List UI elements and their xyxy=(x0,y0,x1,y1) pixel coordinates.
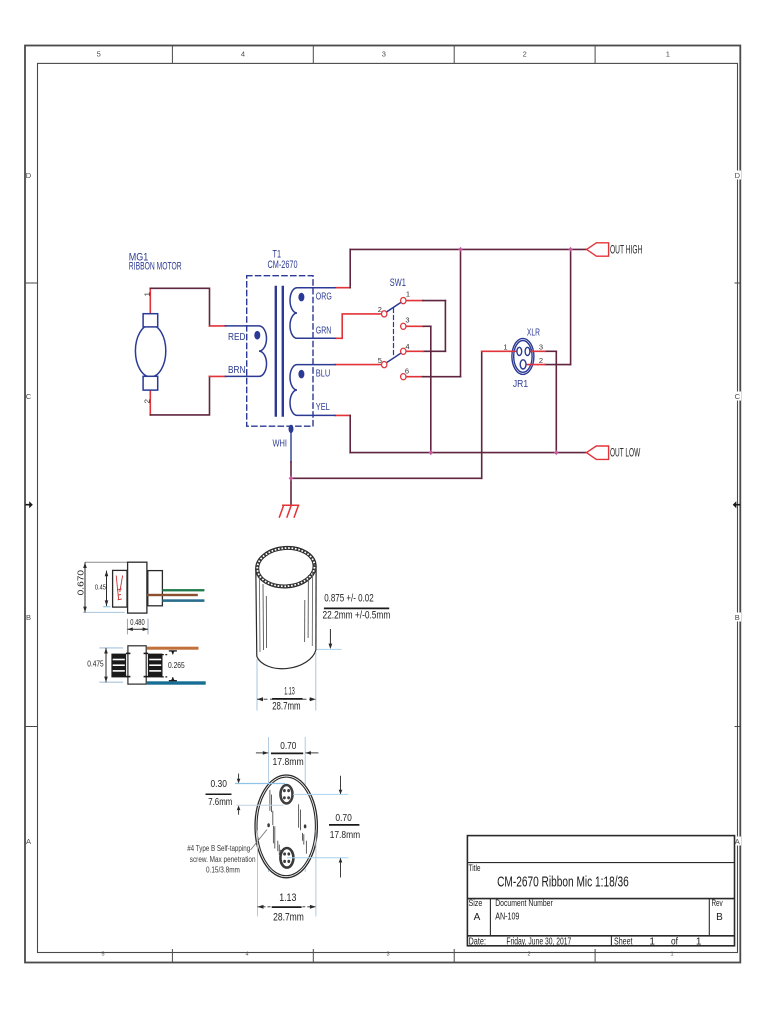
dim 0.30 leaders xyxy=(235,783,285,785)
wire T1 BRN stub xyxy=(210,375,226,377)
wire T1 RED stub xyxy=(210,325,226,327)
svg-text:ORG: ORG xyxy=(316,290,332,302)
svg-text:1.13: 1.13 xyxy=(279,892,296,904)
dim 0.70 top line arrows xyxy=(256,752,268,754)
lead wire green xyxy=(162,589,204,591)
lead wire brown xyxy=(147,594,198,596)
svg-text:1: 1 xyxy=(670,952,673,958)
svg-text:D: D xyxy=(26,171,32,180)
SW1 throw 2-1 xyxy=(387,303,401,312)
note text xyxy=(187,844,255,875)
bobbin left block xyxy=(113,570,127,607)
SW1 throw 5-4 xyxy=(387,353,401,362)
svg-text:Rev: Rev xyxy=(712,898,723,909)
junction at OUT HIGH / XLR pin2 xyxy=(568,247,573,252)
svg-text:4: 4 xyxy=(245,952,248,958)
dim 0.480 extension lines xyxy=(126,619,128,635)
cylinder rim knurl band xyxy=(256,546,316,588)
svg-text:RED: RED xyxy=(228,331,246,343)
svg-text:4: 4 xyxy=(405,342,409,351)
wire XLR pin1 dropper xyxy=(481,351,483,478)
wire XLR pin2 stub red xyxy=(526,364,545,366)
svg-text:0.475: 0.475 xyxy=(87,659,104,669)
wire XLR pin2 to riser xyxy=(545,364,571,366)
screw pilot dot left xyxy=(267,823,270,827)
cylinder top rim outer xyxy=(254,545,317,590)
wire tie 1-4 vertical xyxy=(444,301,446,352)
dim 0.265 arrows xyxy=(169,650,177,652)
core center block xyxy=(128,562,147,613)
right band ticks xyxy=(735,282,741,284)
svg-text:BLU: BLU xyxy=(316,368,331,380)
dim 0.30 arrows xyxy=(238,774,240,782)
svg-text:0.45: 0.45 xyxy=(95,583,106,592)
svg-text:0.480: 0.480 xyxy=(130,617,145,627)
wire WHI blue segment xyxy=(290,429,292,462)
svg-text:5: 5 xyxy=(97,49,101,58)
junction at WHI / XLR pin1 xyxy=(289,476,294,481)
connector XLR JR1 xyxy=(512,338,534,374)
wire SW1-3 stub red xyxy=(406,325,424,327)
reflection hatch lines xyxy=(270,790,307,864)
cylinder right side xyxy=(315,566,317,650)
svg-text:BRN: BRN xyxy=(228,364,246,376)
wire XLR pin1 stub red xyxy=(482,350,517,352)
wire SW1-6 riser to OUT HIGH xyxy=(460,249,462,376)
svg-text:0.670: 0.670 xyxy=(76,570,86,596)
lead wire teal bottom xyxy=(147,681,206,684)
T1 labels xyxy=(268,249,298,271)
cylinder top rim inner xyxy=(258,548,315,587)
svg-text:2: 2 xyxy=(527,952,530,958)
T1 primary dot xyxy=(254,331,260,340)
svg-text:0.875 +/- 0.02: 0.875 +/- 0.02 xyxy=(324,593,374,605)
wire BLU to SW1-5 xyxy=(335,364,381,366)
svg-text:#4 Type B Self-tapping: #4 Type B Self-tapping xyxy=(187,844,250,853)
svg-text:screw. Max penetration: screw. Max penetration xyxy=(190,855,256,864)
screw head top xyxy=(281,785,293,803)
svg-text:1: 1 xyxy=(649,936,655,947)
svg-text:2: 2 xyxy=(523,49,527,58)
motor MG1 xyxy=(135,314,165,390)
svg-text:2: 2 xyxy=(378,305,382,314)
cylinder reflection lines xyxy=(263,575,308,650)
svg-text:2: 2 xyxy=(539,356,543,365)
MG1 labels xyxy=(129,251,182,272)
top band ticks xyxy=(171,46,173,64)
wire SW1-1 stub red xyxy=(406,300,423,302)
svg-text:1: 1 xyxy=(666,49,670,58)
svg-text:AN-109: AN-109 xyxy=(495,912,520,923)
svg-text:JR1: JR1 xyxy=(513,378,528,390)
lead wire teal xyxy=(162,599,204,602)
svg-text:1: 1 xyxy=(406,290,410,299)
wire ORG riser xyxy=(349,249,351,287)
wire OUT LOW bus xyxy=(350,452,586,454)
svg-text:B: B xyxy=(716,912,723,923)
MG1 pin numbers xyxy=(143,292,152,404)
junction at OUT HIGH / SW1-6 xyxy=(458,247,463,252)
svg-text:of: of xyxy=(671,936,678,947)
wire XLR pin3 stub red xyxy=(530,350,545,352)
svg-text:Document Number: Document Number xyxy=(495,898,553,909)
svg-text:D: D xyxy=(735,171,741,180)
svg-text:A: A xyxy=(26,837,31,846)
bobbin right block xyxy=(148,571,163,606)
cylinder left side xyxy=(255,569,258,657)
T1 terminal labels xyxy=(228,290,332,449)
wire OUT HIGH bus xyxy=(350,248,586,250)
svg-text:28.7mm: 28.7mm xyxy=(273,911,304,923)
svg-text:1: 1 xyxy=(696,936,702,947)
dim 0.475 extension lines xyxy=(99,647,123,649)
wire MG1 pin2 stub xyxy=(149,390,151,415)
dim 0.875 leader arrow xyxy=(329,629,331,648)
wire SW1-1 to tie xyxy=(423,300,446,302)
cylinder bottom arc xyxy=(257,650,316,669)
dim 1.13 line xyxy=(257,698,316,700)
svg-text:Title: Title xyxy=(469,863,481,874)
dim 0.70 right arrows xyxy=(340,776,342,794)
wire MG1 pin1 to T1 RED xyxy=(150,288,209,326)
dim 0.475 line xyxy=(105,648,107,682)
XLR pin numbers xyxy=(503,342,543,365)
wire WHI to ground xyxy=(290,462,292,505)
dim 0.70 top extension lines xyxy=(268,737,270,872)
junction at OUT LOW / XLR pin3 xyxy=(554,450,559,455)
svg-text:B: B xyxy=(26,613,31,622)
svg-text:3: 3 xyxy=(539,342,543,351)
dim 1.13 bottom line xyxy=(258,906,272,908)
svg-text:3: 3 xyxy=(386,952,389,958)
junction at OUT LOW / SW1-3 xyxy=(429,450,434,455)
XLR labels xyxy=(513,326,540,390)
svg-text:YEL: YEL xyxy=(316,401,330,413)
svg-text:B: B xyxy=(735,613,740,622)
dim 0.45 line xyxy=(106,571,108,606)
svg-text:Date:: Date: xyxy=(469,936,487,947)
dim 1.13 bottom extension lines xyxy=(257,830,259,916)
svg-text:Size: Size xyxy=(469,898,483,909)
svg-text:22.2mm +/-0.5mm: 22.2mm +/-0.5mm xyxy=(323,610,391,622)
svg-text:Sheet: Sheet xyxy=(614,936,633,947)
dim 0.480 line xyxy=(127,628,148,630)
dim 0.70 right leaders xyxy=(293,793,348,795)
svg-text:1: 1 xyxy=(143,292,152,297)
wire YEL stub red xyxy=(335,414,350,416)
cylinder silhouette inner lines xyxy=(259,572,312,652)
svg-text:0.70: 0.70 xyxy=(280,740,296,752)
ground chassis symbol xyxy=(279,505,298,517)
wire SW1-3 corner xyxy=(423,325,430,327)
svg-text:CM-2670: CM-2670 xyxy=(268,259,298,271)
bobbin flange marks xyxy=(126,653,148,676)
svg-text:OUT HIGH: OUT HIGH xyxy=(610,242,642,256)
SW1 pin numbers xyxy=(378,290,410,376)
svg-text:WHI: WHI xyxy=(273,437,288,449)
centering arrows xyxy=(25,501,33,508)
T1 WHI dot xyxy=(289,425,294,433)
wire SW1-4 stub red xyxy=(406,350,423,352)
svg-text:3: 3 xyxy=(405,315,409,324)
dim 0.670 extension lines xyxy=(85,561,128,563)
note leader xyxy=(251,830,268,851)
winding coil right xyxy=(148,654,162,677)
T1 secondary winding upper xyxy=(290,288,335,339)
wire SW1-3 dropper to OUT LOW xyxy=(430,326,432,452)
svg-text:4: 4 xyxy=(241,49,245,58)
left band ticks xyxy=(25,282,38,284)
svg-text:0.70: 0.70 xyxy=(335,812,352,824)
wire GRN stub red xyxy=(335,314,381,338)
wire YEL dropper xyxy=(349,415,351,452)
wire XLR pin3 to riser xyxy=(545,350,556,352)
svg-text:A: A xyxy=(474,912,481,923)
wire MG1 pin2 to T1 BRN xyxy=(150,376,209,415)
dim 1.13 fraction bar xyxy=(272,698,302,700)
SW1 gang link xyxy=(393,309,395,358)
svg-text:A: A xyxy=(735,837,740,846)
dim 0.265 extension dashes xyxy=(161,654,167,656)
wire SW1-4 to tie xyxy=(423,350,446,352)
red marking xyxy=(116,576,122,600)
connector OUT LOW xyxy=(587,446,609,459)
lead wire brown top xyxy=(147,647,199,650)
base plate ellipse inner xyxy=(257,777,315,876)
screw pilot dot right xyxy=(304,824,307,828)
winding coil left xyxy=(112,654,126,677)
svg-text:3: 3 xyxy=(382,49,386,58)
wire XLR pin3 dropper to OUT LOW xyxy=(555,351,557,452)
svg-text:XLR: XLR xyxy=(527,326,540,338)
wire SW1-6 to riser xyxy=(423,376,461,378)
svg-text:17.8mm: 17.8mm xyxy=(273,756,304,768)
dim 1.13 extension lines xyxy=(256,659,258,711)
svg-text:28.7mm: 28.7mm xyxy=(272,701,300,713)
svg-text:1: 1 xyxy=(503,342,507,351)
wire XLR pin1 to WHI node xyxy=(291,477,482,479)
svg-text:C: C xyxy=(735,392,741,401)
svg-text:0.15/3.8mm: 0.15/3.8mm xyxy=(206,865,240,874)
svg-text:7.6mm: 7.6mm xyxy=(208,796,232,808)
wire XLR pin2 riser to OUT HIGH xyxy=(570,249,572,364)
wire ORG stub red xyxy=(335,287,350,289)
T1 primary winding xyxy=(225,326,266,377)
SW1 contacts xyxy=(382,298,406,380)
dim 0.670 line xyxy=(84,562,86,612)
bottom band ticks xyxy=(171,949,173,963)
svg-text:SW1: SW1 xyxy=(390,277,406,289)
svg-text:6: 6 xyxy=(405,367,409,376)
screw head bottom xyxy=(280,848,293,868)
T1 secondary winding lower xyxy=(290,365,335,416)
bobbin body xyxy=(128,646,146,684)
svg-text:1.13: 1.13 xyxy=(284,685,295,697)
svg-text:GRN: GRN xyxy=(316,325,332,337)
svg-text:5: 5 xyxy=(101,952,104,958)
wire SW1-6 stub red xyxy=(406,376,423,378)
svg-text:0.30: 0.30 xyxy=(211,778,228,790)
T1 core xyxy=(276,287,283,416)
base plate ellipse outer xyxy=(255,775,317,878)
svg-text:2: 2 xyxy=(143,399,152,404)
svg-text:Friday, June 30, 2017: Friday, June 30, 2017 xyxy=(506,936,571,947)
dim 0.875 fraction bar xyxy=(324,607,389,609)
svg-text:C: C xyxy=(26,392,32,401)
wire MG1 pin1 stub xyxy=(149,288,151,313)
svg-text:0.265: 0.265 xyxy=(168,660,185,670)
svg-text:RIBBON MOTOR: RIBBON MOTOR xyxy=(129,261,182,273)
svg-text:5: 5 xyxy=(378,356,382,365)
connector OUT HIGH xyxy=(587,243,609,256)
svg-text:17.8mm: 17.8mm xyxy=(330,829,361,841)
svg-text:OUT LOW: OUT LOW xyxy=(610,446,641,460)
svg-text:CM-2670 Ribbon Mic 1:18/36: CM-2670 Ribbon Mic 1:18/36 xyxy=(497,875,629,891)
transformer T1 box xyxy=(247,276,313,427)
T1 secondary lower dot xyxy=(298,370,304,379)
T1 secondary upper dot xyxy=(298,293,304,302)
